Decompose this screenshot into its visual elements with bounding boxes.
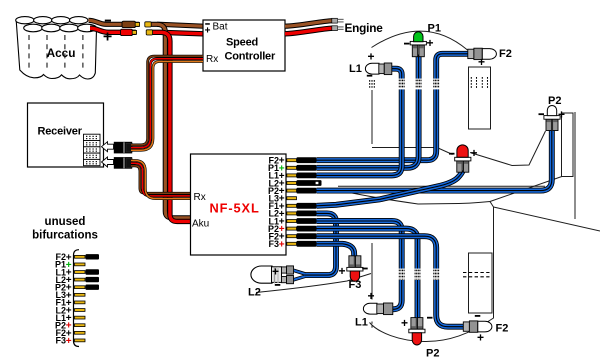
wire L1 output to rear landing lamp [317,221,402,309]
LED F1 beacon (red, mid fuselage) [455,145,471,172]
bullet connectors positive lead [121,29,133,35]
wire P1 output to green position LED [317,55,419,168]
svg-text:Speed: Speed [226,37,258,49]
svg-text:F3: F3 [349,279,362,291]
wire red to Aku [161,32,191,221]
lamp L2 landing light [251,266,294,284]
wire L2 split to lamp legs [294,270,306,280]
bullet connectors negative lead [122,21,136,27]
svg-text:F3: F3 [55,336,66,346]
svg-text:+: + [66,336,72,347]
svg-text:+: + [401,316,408,330]
svg-text:NF-5XL: NF-5XL [210,201,260,216]
airframe curve near F3 [256,274,371,293]
svg-text:+: + [205,26,211,37]
receiver pin header [84,134,101,166]
svg-text:P2: P2 [426,348,439,360]
wire battery negative brown [89,20,204,26]
airframe fuselage spine to fin [470,131,546,166]
wire engine red [285,28,333,34]
svg-text:Rx: Rx [194,192,206,203]
wire L1 output to front landing lamp [317,69,402,176]
wire F1 output to beacon LED [317,171,463,206]
svg-text:F2: F2 [496,323,509,335]
svg-text:+: + [338,264,345,278]
bullet connector gap [139,21,145,29]
airframe long fuselage line [338,185,545,187]
polarity marks battery [105,20,111,22]
svg-text:+: + [478,55,485,69]
servo cable receiver to speed controller [131,56,203,150]
svg-text:L1: L1 [355,317,368,329]
airframe bottom wing outline [340,191,494,342]
servo plug bottom [114,157,132,169]
airframe mast under L1 top [371,90,373,144]
servo cable receiver to NF-5XL Rx [131,161,191,199]
svg-text:L1: L1 [349,63,362,75]
svg-text:+: + [103,29,112,46]
wire F3 output to tail strobe [317,244,355,257]
svg-text:Aku: Aku [192,219,209,230]
airframe fin lines [564,132,566,171]
NF-5XL module U1 [191,154,287,255]
svg-text:+: + [477,331,484,345]
airframe outline top (canopy arc) [256,31,600,341]
svg-text:bifurcations: bifurcations [32,230,98,242]
svg-text:unused: unused [45,216,86,228]
wire battery positive red [90,28,203,34]
wire F2 output to rear strobe [317,236,465,327]
wire engine brown [285,21,333,27]
bifurcation bracket [74,250,80,347]
bulkhead pass-through dashes [398,79,439,280]
svg-text:P1: P1 [428,23,441,35]
lamp L1 front [365,63,391,75]
svg-text:+: + [279,239,285,250]
svg-text:+: + [470,146,477,160]
wire L2 output to landing lamp L2 [304,213,337,275]
battery pack Accu [16,17,97,79]
arrow plug top [102,142,114,152]
receiver U-RX [28,103,104,167]
svg-text:Receiver: Receiver [38,126,83,138]
svg-text:Accu: Accu [47,46,76,60]
svg-text:Controller: Controller [225,51,276,63]
svg-text:F3: F3 [268,239,279,249]
svg-text:Engine: Engine [345,21,384,35]
LED P1 green position light [410,32,426,57]
airframe top-right wing rectangle [469,67,491,129]
airframe fin rectangle [562,113,574,177]
svg-text:Bat: Bat [213,22,228,33]
airframe tailplane diagonals [490,174,569,202]
svg-text:+: + [367,289,374,303]
svg-text:+: + [427,36,434,50]
lamp F2 front strobe [468,48,497,59]
svg-text:F2: F2 [499,48,512,60]
servo plug top [114,142,132,154]
svg-text:+: + [367,50,374,64]
wire brown to Aku [157,24,191,218]
LED P2 fin tip [544,105,560,130]
svg-text:P2: P2 [548,95,561,107]
airframe bottom-right inner rectangle [469,253,493,313]
svg-text:Rx: Rx [206,54,218,65]
engine connector tips [332,18,338,30]
arrow plug bottom [102,157,114,167]
speed controller U-SC [203,20,285,71]
LED F3 tail strobe (points down) [347,256,363,281]
wire P2 output to rear red LED [317,229,418,318]
lamp L1 rear [363,303,392,315]
wire F2 output to front-right strobe [317,54,469,160]
svg-text:L2: L2 [248,287,261,299]
LED P2 rear (red, points down) [409,318,425,345]
lamp F2 rear strobe [463,321,492,332]
svg-text:+: + [272,265,279,279]
svg-text:+: + [558,108,565,122]
wire P2 output to right fin LED [317,131,552,191]
airframe wing root line [372,148,453,155]
